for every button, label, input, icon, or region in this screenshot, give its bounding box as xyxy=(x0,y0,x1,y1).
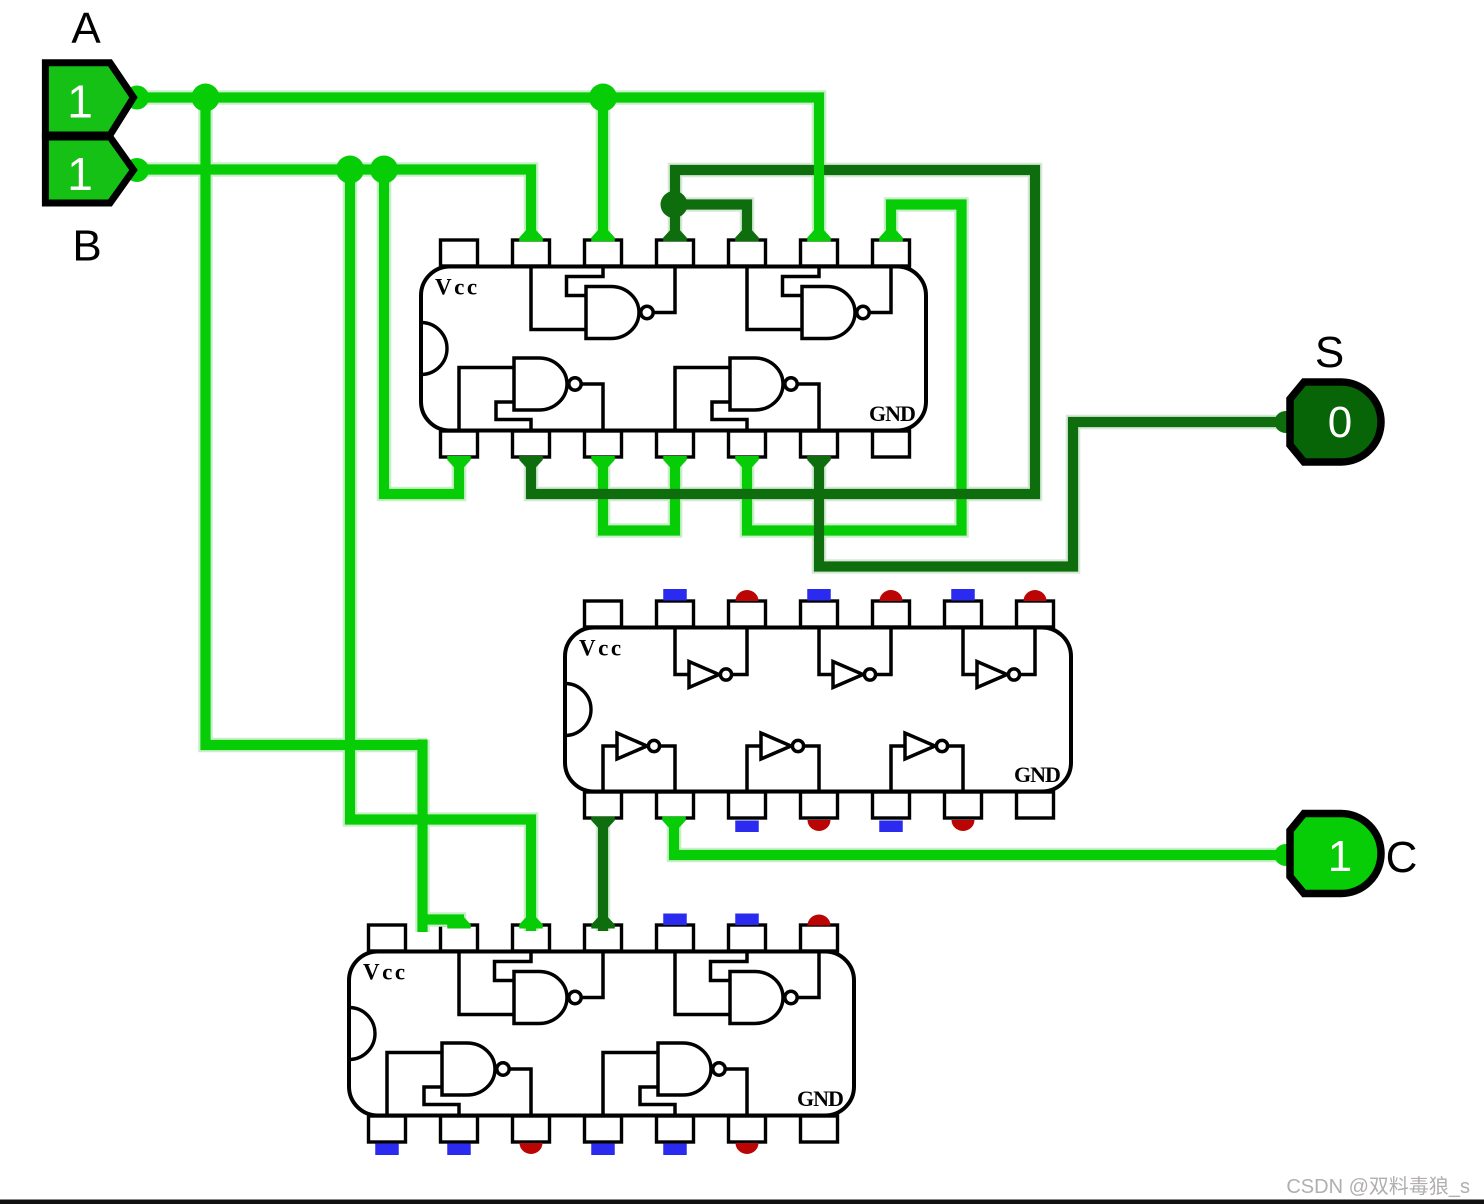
svg-text:1: 1 xyxy=(67,76,93,128)
U3 (7400 quad NAND) pin 6 (bottom) xyxy=(729,1116,766,1142)
svg-text:1: 1 xyxy=(1328,832,1352,881)
U3 floating-input stub (blue) pin 5 xyxy=(663,1144,687,1156)
U3 (7400 quad NAND) NAND gate A xyxy=(459,952,603,1024)
U3 (7400 quad NAND) pin 10 (top) xyxy=(657,925,694,951)
svg-text:GND: GND xyxy=(1014,762,1060,787)
U2 error-output stub (red) pin 12 xyxy=(736,590,759,601)
bottom window edge bar xyxy=(0,1200,1484,1204)
U2 (7404 hex inverter) pin 12 (top) xyxy=(729,601,766,627)
U1 (7400 quad NAND) pin 12 (top) xyxy=(585,240,622,266)
U3 (7400 quad NAND) pin 1 (bottom) xyxy=(369,1116,406,1142)
U2 (7404 hex inverter) inverter 6 (bottom-right) xyxy=(891,733,963,792)
input pin B (value 1) xyxy=(45,137,133,203)
U3 error-output stub (red) pin 8 xyxy=(808,915,831,926)
U3 (7400 quad NAND) pin 8 (top) xyxy=(801,925,838,951)
U3 floating-input stub (blue) pin 1 xyxy=(375,1144,399,1156)
U3 (7400 quad NAND) pin 7 (bottom) xyxy=(801,1116,838,1142)
U1 (7400 quad NAND) pin 7 (bottom) xyxy=(873,431,910,457)
U2 (7404 hex inverter) inverter 1 (top-left) xyxy=(675,628,747,688)
U2 error-output stub (red) pin 8 xyxy=(1024,590,1047,601)
U1 (7400 quad NAND) pin 10 (top) xyxy=(729,240,766,266)
U3 (7400 quad NAND) NAND gate C xyxy=(387,1043,531,1116)
U2 (7404 hex inverter) pin 11 (top) xyxy=(801,601,838,627)
wire: input B to U1 13, U1 1 and U3 12 (logic 1) xyxy=(133,170,531,932)
U3 (7400 quad NAND) pin 13 (top) xyxy=(441,925,478,951)
wire terminal dot at C xyxy=(1275,844,1297,866)
U3 (7400 quad NAND) NAND gate D xyxy=(603,1043,747,1116)
wire: input A to U1 12, U1 9 and U3 13 (logic 1) xyxy=(133,98,819,746)
wire: A branch into U3 pin 13 xyxy=(423,740,460,933)
U1 (7400 quad NAND) pin 13 (top) xyxy=(513,240,550,266)
U2 error-output stub (red) pin 4 xyxy=(808,820,831,831)
wire: U1 4Y to U1 3B and 1B (logic 0) xyxy=(531,170,1035,494)
U3 (7400 quad NAND) pin 11 (top) xyxy=(585,925,622,951)
svg-text:Vcc: Vcc xyxy=(363,960,408,985)
svg-text:GND: GND xyxy=(869,401,915,426)
U2 (7404 hex inverter) inverter 4 (bottom-left) xyxy=(603,733,675,792)
U3 error-output stub (red) pin 6 xyxy=(736,1143,759,1154)
U1 (7400 quad NAND) pin 6 (bottom) xyxy=(801,431,838,457)
U1 (7400 quad NAND) notch xyxy=(421,323,447,375)
junction dot on B wire (x349) xyxy=(336,156,364,184)
U3 (7400 quad NAND) notch xyxy=(349,1008,375,1060)
U3 floating-input stub (blue) pin 2 xyxy=(447,1144,471,1156)
junction dot on A wire (x205) xyxy=(192,84,220,112)
U2 floating-input stub (blue) pin 13 xyxy=(663,589,687,601)
svg-text:C: C xyxy=(1386,833,1418,882)
U2 (7404 hex inverter) chip body xyxy=(565,628,1071,792)
U2 error-output stub (red) pin 10 xyxy=(880,590,903,601)
U3 (7400 quad NAND) pin 9 (top) xyxy=(729,925,766,951)
U1 (7400 quad NAND) pin 4 (bottom) xyxy=(657,431,694,457)
U1 (7400 quad NAND) pin 14 (top) xyxy=(441,240,478,266)
svg-text:S: S xyxy=(1315,328,1344,377)
U2 (7404 hex inverter) pin 2 (bottom) xyxy=(657,792,694,818)
U2 (7404 hex inverter) inverter 5 (bottom-mid) xyxy=(747,733,819,792)
junction dot on A wire (x603) xyxy=(589,84,617,112)
U3 (7400 quad NAND) NAND gate B xyxy=(675,952,819,1024)
wire: U1 3Y to U1 2B (logic 1) xyxy=(747,205,962,531)
svg-text:Vcc: Vcc xyxy=(579,636,624,661)
wire terminal dot at input B xyxy=(125,158,149,182)
U2 (7404 hex inverter) pin 13 (top) xyxy=(657,601,694,627)
wire: U3 4Y to U2 1A (logic 0) xyxy=(598,817,608,931)
wire-to-pin connection flares xyxy=(447,231,903,929)
U2 (7404 hex inverter) pin 9 (top) xyxy=(945,601,982,627)
U1 (7400 quad NAND) NAND gate D xyxy=(675,358,819,431)
U2 (7404 hex inverter) inverter 2 (top-mid) xyxy=(819,628,891,688)
U3 (7400 quad NAND) chip body xyxy=(349,952,854,1116)
input pin A (value 1) xyxy=(45,63,133,135)
U1 (7400 quad NAND) chip body xyxy=(421,267,926,431)
wire glow underlay xyxy=(133,98,1279,933)
output pin C (value 1) xyxy=(1290,814,1381,894)
U2 (7404 hex inverter) pin 10 (top) xyxy=(873,601,910,627)
U2 floating-input stub (blue) pin 5 xyxy=(879,821,903,833)
U2 (7404 hex inverter) pin 14 (top) xyxy=(585,601,622,627)
U2 floating-input stub (blue) pin 3 xyxy=(735,821,759,833)
U2 (7404 hex inverter) pin 7 (bottom) xyxy=(1017,792,1054,818)
U1 (7400 quad NAND) NAND gate B xyxy=(747,267,891,339)
U3 (7400 quad NAND) pin 12 (top) xyxy=(513,925,550,951)
U3 floating-input stub (blue) pin 10 xyxy=(663,914,687,926)
U1 (7400 quad NAND) NAND gate A xyxy=(531,267,675,339)
junction dot on B wire (x383) xyxy=(370,156,398,184)
U3 (7400 quad NAND) pin 2 (bottom) xyxy=(441,1116,478,1142)
output pin S (value 0) xyxy=(1290,382,1381,462)
U3 (7400 quad NAND) pin 14 (top) xyxy=(369,925,406,951)
U3 error-output stub (red) pin 3 xyxy=(520,1143,543,1154)
svg-text:CSDN @双料毒狼_s: CSDN @双料毒狼_s xyxy=(1286,1175,1470,1198)
wire: U1 1Y to U1 2A (logic 1) xyxy=(603,457,675,531)
svg-text:Vcc: Vcc xyxy=(435,275,480,300)
U3 (7400 quad NAND) pin 5 (bottom) xyxy=(657,1116,694,1142)
U1 (7400 quad NAND) pin 11 (top) xyxy=(657,240,694,266)
U3 floating-input stub (blue) pin 4 xyxy=(591,1144,615,1156)
svg-text:0: 0 xyxy=(1328,398,1352,447)
U2 (7404 hex inverter) pin 8 (top) xyxy=(1017,601,1054,627)
U2 floating-input stub (blue) pin 9 xyxy=(951,589,975,601)
U3 (7400 quad NAND) pin 4 (bottom) xyxy=(585,1116,622,1142)
U2 (7404 hex inverter) pin 3 (bottom) xyxy=(729,792,766,818)
U1 (7400 quad NAND) pin 9 (top) xyxy=(801,240,838,266)
svg-text:1: 1 xyxy=(67,148,93,200)
U2 floating-input stub (blue) pin 11 xyxy=(807,589,831,601)
U2 (7404 hex inverter) pin 1 (bottom) xyxy=(585,792,622,818)
U2 (7404 hex inverter) inverter 3 (top-right) xyxy=(963,628,1035,688)
wire: U1 2Y to output S (logic 0) xyxy=(819,422,1279,567)
U3 floating-input stub (blue) pin 9 xyxy=(735,914,759,926)
svg-text:A: A xyxy=(71,4,101,53)
svg-text:B: B xyxy=(72,222,101,271)
U2 (7404 hex inverter) pin 5 (bottom) xyxy=(873,792,910,818)
U1 (7400 quad NAND) pin 1 (bottom) xyxy=(441,431,478,457)
U1 (7400 quad NAND) pin 8 (top) xyxy=(873,240,910,266)
U2 (7404 hex inverter) notch xyxy=(565,684,591,736)
wire terminal dot at S xyxy=(1275,411,1297,433)
junction dot on dark net at U1 pin 11 xyxy=(661,191,688,218)
U2 error-output stub (red) pin 6 xyxy=(952,820,975,831)
U1 (7400 quad NAND) pin 3 (bottom) xyxy=(585,431,622,457)
U1 (7400 quad NAND) pin 2 (bottom) xyxy=(513,431,550,457)
U3 (7400 quad NAND) pin 3 (bottom) xyxy=(513,1116,550,1142)
wire: U2 1Y to output C (logic 1) xyxy=(674,817,1279,855)
wire terminal dot at input A xyxy=(125,86,149,110)
U2 (7404 hex inverter) pin 4 (bottom) xyxy=(801,792,838,818)
U2 (7404 hex inverter) pin 6 (bottom) xyxy=(945,792,982,818)
U1 (7400 quad NAND) NAND gate C xyxy=(459,358,603,431)
U1 (7400 quad NAND) pin 5 (bottom) xyxy=(729,431,766,457)
svg-text:GND: GND xyxy=(797,1086,843,1111)
